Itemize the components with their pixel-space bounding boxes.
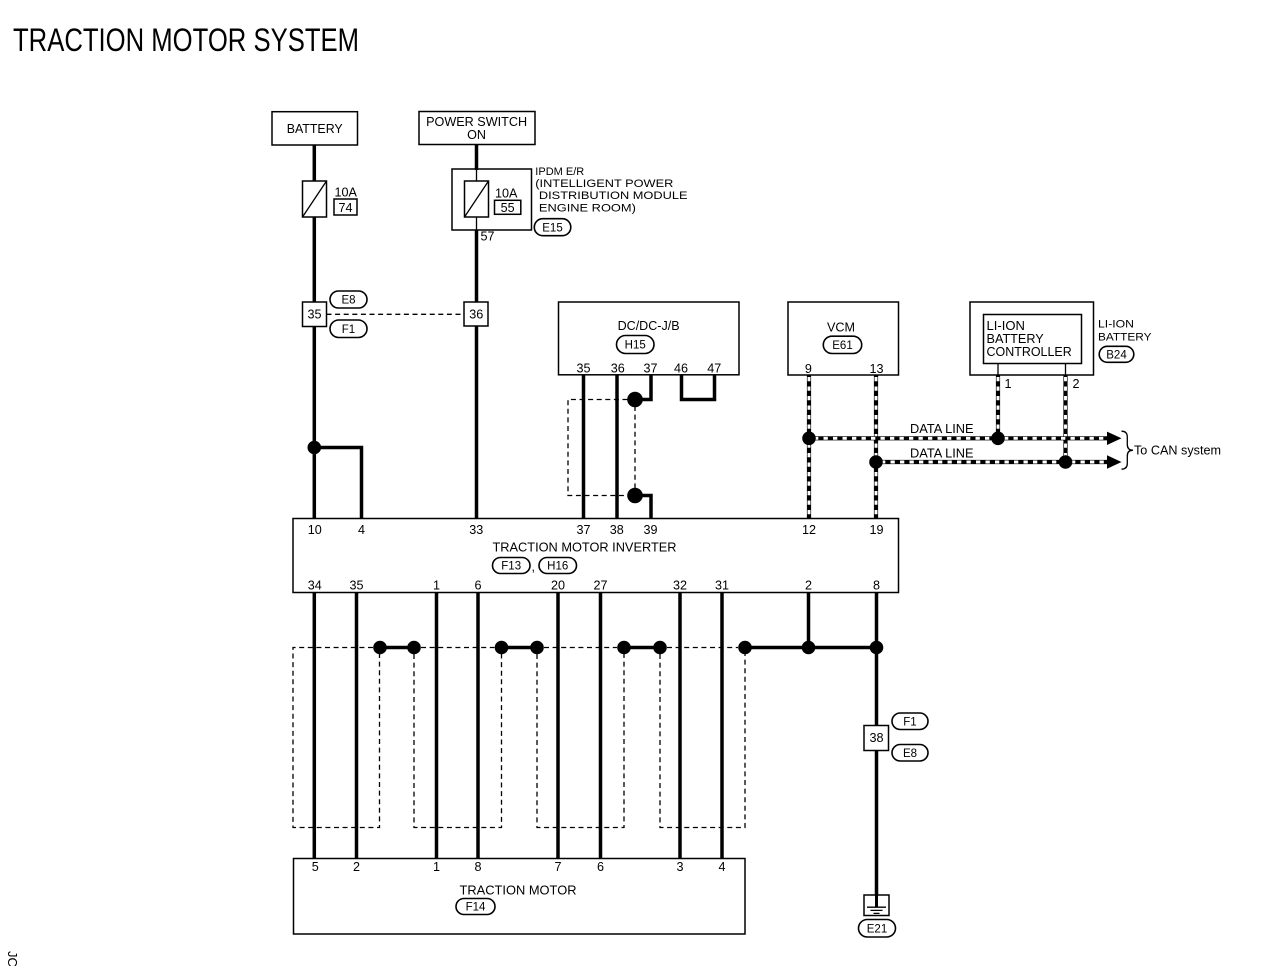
svg-text:37: 37: [576, 523, 590, 537]
svg-text:10A: 10A: [495, 187, 518, 201]
wire shield jumper C-D: [624, 646, 660, 650]
svg-text:(INTELLIGENT POWER: (INTELLIGENT POWER: [535, 178, 673, 190]
svg-text:F1: F1: [342, 324, 355, 336]
box IPDM E/R E15: [452, 169, 532, 230]
wire inverter pin 35 to motor pin 2: [355, 593, 359, 859]
svg-text:5: 5: [312, 860, 319, 874]
svg-text:B24: B24: [1106, 350, 1127, 362]
shield dashed box around DC/DC wires: [568, 400, 628, 496]
svg-text:1: 1: [433, 860, 440, 874]
wire inverter pin 32 to motor pin 3: [678, 593, 682, 859]
node data line 2 at VCM 13: [869, 455, 883, 469]
svg-text:IPDM E/R: IPDM E/R: [535, 166, 584, 178]
connector oval B24: [1099, 346, 1134, 362]
box DC/DC-J/B H15: [559, 302, 740, 375]
node shield C right: [617, 641, 631, 655]
svg-text:To CAN system: To CAN system: [1134, 444, 1221, 458]
svg-text:LI-ION: LI-ION: [1098, 319, 1134, 331]
svg-text:36: 36: [611, 362, 625, 376]
svg-text:1: 1: [1004, 377, 1011, 391]
wire ground bus horizontal: [745, 646, 877, 650]
svg-text:74: 74: [338, 201, 352, 215]
box TRACTION MOTOR INVERTER: [293, 519, 899, 593]
connector oval E61: [823, 336, 861, 353]
box LI-ION BATTERY outer B24: [970, 302, 1094, 375]
wire DATA LINE upper: [809, 436, 1108, 440]
wire DC/DC pin 35 to inverter pin 37: [582, 375, 586, 519]
node shield bottom junction: [627, 488, 643, 504]
wire IPDM pin 57 to inverter pin 33: [475, 230, 479, 519]
svg-text:DC/DC-J/B: DC/DC-J/B: [618, 319, 680, 333]
wire CAN LI-ION pin 1: [996, 375, 1000, 438]
connector oval F14: [456, 899, 495, 915]
wire inside IPDM to fuse: [476, 169, 478, 182]
wire DC/DC pin 36 to inverter pin 38: [615, 375, 619, 519]
svg-text:12: 12: [802, 523, 816, 537]
svg-text:7: 7: [554, 860, 561, 874]
arrow DATA LINE upper: [1107, 432, 1122, 445]
connector oval F13: [493, 558, 531, 574]
svg-text:35: 35: [349, 579, 363, 593]
connector oval F1 right: [892, 713, 928, 730]
svg-text:27: 27: [593, 579, 607, 593]
svg-text:31: 31: [715, 579, 729, 593]
svg-text:4: 4: [718, 860, 725, 874]
node battery branch junction: [308, 441, 322, 455]
wire shield drain dashed: [634, 406, 636, 489]
connector oval E8: [330, 291, 367, 308]
fuse 74 10A: [303, 181, 327, 217]
svg-text:8: 8: [474, 860, 481, 874]
wire shield node to inverter pin 39: [637, 496, 651, 519]
svg-text:JC: JC: [5, 951, 20, 966]
svg-text:35: 35: [307, 308, 321, 322]
node ground bus at pin 2: [802, 641, 816, 655]
svg-text:BATTERY: BATTERY: [987, 332, 1045, 346]
wire inverter pin 20 to motor pin 7: [556, 593, 560, 859]
box POWER SWITCH ON: [419, 112, 535, 145]
svg-text:34: 34: [308, 579, 322, 593]
node data line 2 at LI-ION 2: [1059, 455, 1073, 469]
connector box 36: [464, 302, 488, 326]
box TRACTION MOTOR: [294, 859, 746, 935]
node shield B left: [407, 641, 421, 655]
svg-text:DISTRIBUTION MODULE: DISTRIBUTION MODULE: [539, 190, 688, 202]
svg-text:DATA LINE: DATA LINE: [910, 447, 974, 461]
svg-text:E61: E61: [832, 340, 852, 352]
node data line 1 at LI-ION 1: [991, 432, 1005, 446]
connector oval E21: [859, 920, 896, 938]
svg-text:E8: E8: [341, 295, 355, 307]
box BATTERY: [272, 112, 358, 145]
shield dashed box D: [660, 648, 745, 828]
svg-text:LI-ION: LI-ION: [987, 319, 1025, 333]
wire inverter pin 27 to motor pin 6: [599, 593, 603, 859]
wire branch to inverter pin 4: [314, 448, 361, 519]
svg-text:ENGINE ROOM): ENGINE ROOM): [539, 202, 636, 214]
shield dashed box C: [537, 648, 624, 828]
box VCM E61: [788, 302, 899, 375]
wire shield jumper B-C: [502, 646, 538, 650]
svg-text:CONTROLLER: CONTROLLER: [987, 345, 1072, 359]
shield dashed box A: [293, 648, 380, 828]
node ground bus at pin 8: [870, 641, 884, 655]
svg-text:10A: 10A: [335, 186, 358, 200]
wire battery feed (BATTERY to inverter pin 10): [313, 145, 317, 519]
connector oval F1: [330, 320, 367, 338]
svg-text:F1: F1: [903, 717, 916, 729]
svg-text:ON: ON: [467, 128, 486, 142]
svg-text:E8: E8: [903, 748, 917, 760]
svg-text:32: 32: [673, 579, 687, 593]
connector line 35-36 dashed: [327, 313, 465, 315]
svg-text:19: 19: [869, 523, 883, 537]
node shield B right: [495, 641, 509, 655]
svg-text:DATA LINE: DATA LINE: [910, 422, 974, 436]
node shield top junction: [627, 392, 643, 408]
svg-text:3: 3: [676, 860, 683, 874]
wire CAN LI-ION pin 2 stub: [1065, 364, 1067, 376]
wire inverter pin 8 to ground E21: [875, 593, 879, 897]
wire CAN LI-ION pin 2: [1063, 375, 1067, 462]
svg-text:2: 2: [805, 579, 812, 593]
svg-text:VCM: VCM: [827, 321, 855, 335]
svg-text:2: 2: [1072, 377, 1079, 391]
node shield D left: [653, 641, 667, 655]
svg-text:TRACTION MOTOR INVERTER: TRACTION MOTOR INVERTER: [493, 541, 677, 555]
fuse number box 74: [334, 199, 357, 215]
svg-text:F14: F14: [466, 902, 486, 914]
wire inverter pin 1 to motor pin 1: [435, 593, 439, 859]
connector oval H15: [617, 336, 655, 354]
svg-text:13: 13: [869, 362, 883, 376]
svg-text:F13: F13: [501, 561, 521, 573]
svg-text:39: 39: [643, 523, 657, 537]
svg-text:BATTERY: BATTERY: [1098, 332, 1152, 344]
svg-text:46: 46: [674, 362, 688, 376]
svg-text:55: 55: [501, 201, 515, 215]
connector box 38: [864, 726, 889, 751]
wire inverter pin 6 to motor pin 8: [476, 593, 480, 859]
shield dashed box B: [414, 648, 502, 828]
svg-text:6: 6: [474, 579, 481, 593]
svg-text:E15: E15: [542, 222, 562, 234]
svg-text:,: ,: [532, 560, 536, 574]
connector oval E8 right: [892, 745, 928, 762]
node data line 1 at VCM 9: [802, 432, 816, 446]
brace To CAN system: [1122, 431, 1134, 469]
wire power switch feed (to IPDM E/R): [475, 145, 479, 171]
wire inverter pin 2 ground drain: [807, 593, 811, 648]
node shield D right: [738, 641, 752, 655]
svg-text:37: 37: [643, 362, 657, 376]
connector oval H16: [539, 558, 577, 574]
wire DC/DC pin 37 to shield node: [637, 375, 651, 400]
svg-text:36: 36: [469, 308, 483, 322]
svg-text:57: 57: [481, 230, 495, 244]
wire inverter pin 31 to motor pin 4: [720, 593, 724, 859]
svg-text:BATTERY: BATTERY: [287, 122, 344, 136]
wire DC/DC pins 46-47 loop: [682, 375, 715, 400]
wire shield jumper A-B: [380, 646, 414, 650]
wire DATA LINE lower: [876, 460, 1108, 464]
svg-text:H16: H16: [547, 561, 568, 573]
svg-text:2: 2: [353, 860, 360, 874]
svg-text:20: 20: [551, 579, 565, 593]
svg-text:H15: H15: [625, 340, 646, 352]
svg-text:8: 8: [873, 579, 880, 593]
svg-text:35: 35: [576, 362, 590, 376]
connector oval E15: [534, 219, 571, 236]
svg-text:10: 10: [308, 523, 322, 537]
svg-text:47: 47: [707, 362, 721, 376]
ground symbol E21: [864, 895, 889, 916]
svg-text:33: 33: [469, 523, 483, 537]
fuse 55 10A: [465, 181, 489, 217]
connector box 35: [303, 302, 327, 327]
wire LI-ION controller pin 1 stub: [997, 364, 999, 376]
svg-text:4: 4: [358, 523, 365, 537]
wire fuse 55 to IPDM bottom: [476, 217, 478, 231]
arrow DATA LINE lower: [1107, 455, 1122, 468]
node shield C left: [530, 641, 544, 655]
wire CAN VCM pin 13 to inverter pin 19: [874, 375, 878, 519]
svg-text:1: 1: [433, 579, 440, 593]
fuse number box 55: [495, 200, 521, 214]
svg-text:E21: E21: [867, 924, 887, 936]
box LI-ION BATTERY CONTROLLER inner: [984, 315, 1082, 364]
svg-text:38: 38: [869, 731, 883, 745]
wire CAN VCM pin 9 to inverter pin 12: [807, 375, 811, 519]
svg-text:38: 38: [610, 523, 624, 537]
svg-text:9: 9: [805, 362, 812, 376]
svg-text:TRACTION MOTOR SYSTEM: TRACTION MOTOR SYSTEM: [13, 22, 359, 58]
wire inverter pin 34 to motor pin 5: [313, 593, 317, 859]
svg-text:TRACTION MOTOR: TRACTION MOTOR: [460, 884, 577, 898]
node shield A right: [373, 641, 387, 655]
svg-text:6: 6: [597, 860, 604, 874]
